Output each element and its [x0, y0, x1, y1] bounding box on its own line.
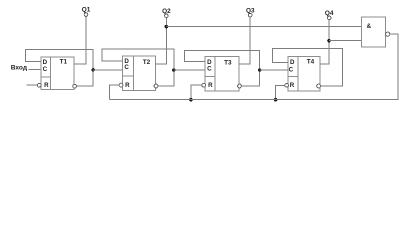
- flip-flop T3: [205, 57, 239, 92]
- node junction R3 rail: [189, 98, 193, 102]
- wire NAND output feedback to bottom rail: [110, 34, 398, 99]
- svg-text:D: D: [290, 59, 295, 66]
- wire Q4 to NAND input B: [329, 40, 361, 42]
- wire Q1 output to terminal: [74, 16, 86, 64]
- svg-text:Вход: Вход: [11, 65, 28, 72]
- wire T3 feedback loop Qbar to D: [184, 51, 259, 87]
- node junction to C2: [92, 68, 95, 71]
- flip-flop T1: [41, 57, 74, 89]
- svg-text:Q2: Q2: [162, 8, 171, 15]
- node junction Q4 to NAND input B: [327, 39, 331, 43]
- wire junction to C3: [174, 69, 205, 71]
- wire R4 to bottom rail: [276, 85, 285, 99]
- wire rail Q2 to NAND input A: [166, 26, 361, 28]
- wire T2 feedback loop Qbar to D: [102, 49, 174, 86]
- Q-bar T4 output bubble: [317, 84, 321, 88]
- wire input to C1: [29, 69, 42, 71]
- node Q4 terminal: [327, 16, 331, 20]
- svg-text:&: &: [367, 23, 372, 30]
- svg-text:T4: T4: [307, 58, 315, 65]
- wire R3 to bottom rail: [191, 85, 202, 99]
- wire Q2 output to terminal: [156, 18, 167, 65]
- svg-text:Q1: Q1: [82, 7, 91, 14]
- flip-flop T4: [288, 57, 320, 91]
- svg-text:C: C: [43, 66, 48, 73]
- wire R1 stub: [27, 84, 38, 86]
- svg-text:Q3: Q3: [246, 8, 255, 15]
- flip-flop T2: [122, 56, 155, 91]
- wire Q3 output to terminal: [239, 17, 250, 64]
- node junction to C3: [172, 68, 175, 71]
- node junction to C4: [258, 68, 261, 71]
- wire junction to C2: [93, 69, 122, 71]
- wire T1 feedback loop Qbar to D: [25, 50, 93, 86]
- wire junction to C4: [260, 69, 288, 71]
- node Q1 terminal: [84, 13, 88, 17]
- R1 input bubble: [37, 83, 41, 87]
- R3 input bubble: [202, 83, 206, 87]
- node Q2 terminal: [165, 14, 169, 18]
- R2 input bubble: [119, 83, 123, 87]
- Q-bar T1 output bubble: [73, 84, 77, 88]
- svg-text:R: R: [208, 82, 213, 89]
- svg-text:T1: T1: [60, 59, 68, 66]
- svg-text:T2: T2: [143, 59, 151, 66]
- wire Q4 output to terminal: [320, 20, 329, 64]
- svg-text:R: R: [125, 82, 130, 89]
- svg-text:Q4: Q4: [325, 10, 334, 17]
- NAND output bubble: [386, 32, 390, 36]
- node Q3 terminal: [248, 13, 252, 17]
- wire T4 feedback loop Qbar to D: [273, 49, 343, 86]
- Q-bar T2 output bubble: [154, 84, 158, 88]
- Q-bar T3 output bubble: [238, 84, 242, 88]
- svg-text:C: C: [289, 67, 294, 74]
- wire R2 to bottom rail: [110, 85, 120, 100]
- svg-text:C: C: [207, 66, 212, 73]
- NAND gate U1: [361, 17, 385, 47]
- svg-text:R: R: [44, 82, 49, 89]
- node junction R4 rail: [274, 98, 278, 102]
- node junction Q2 to NAND rail: [165, 25, 169, 29]
- svg-text:C: C: [124, 64, 129, 71]
- svg-text:T3: T3: [224, 59, 232, 66]
- R4 input bubble: [285, 83, 289, 87]
- svg-text:R: R: [290, 82, 295, 89]
